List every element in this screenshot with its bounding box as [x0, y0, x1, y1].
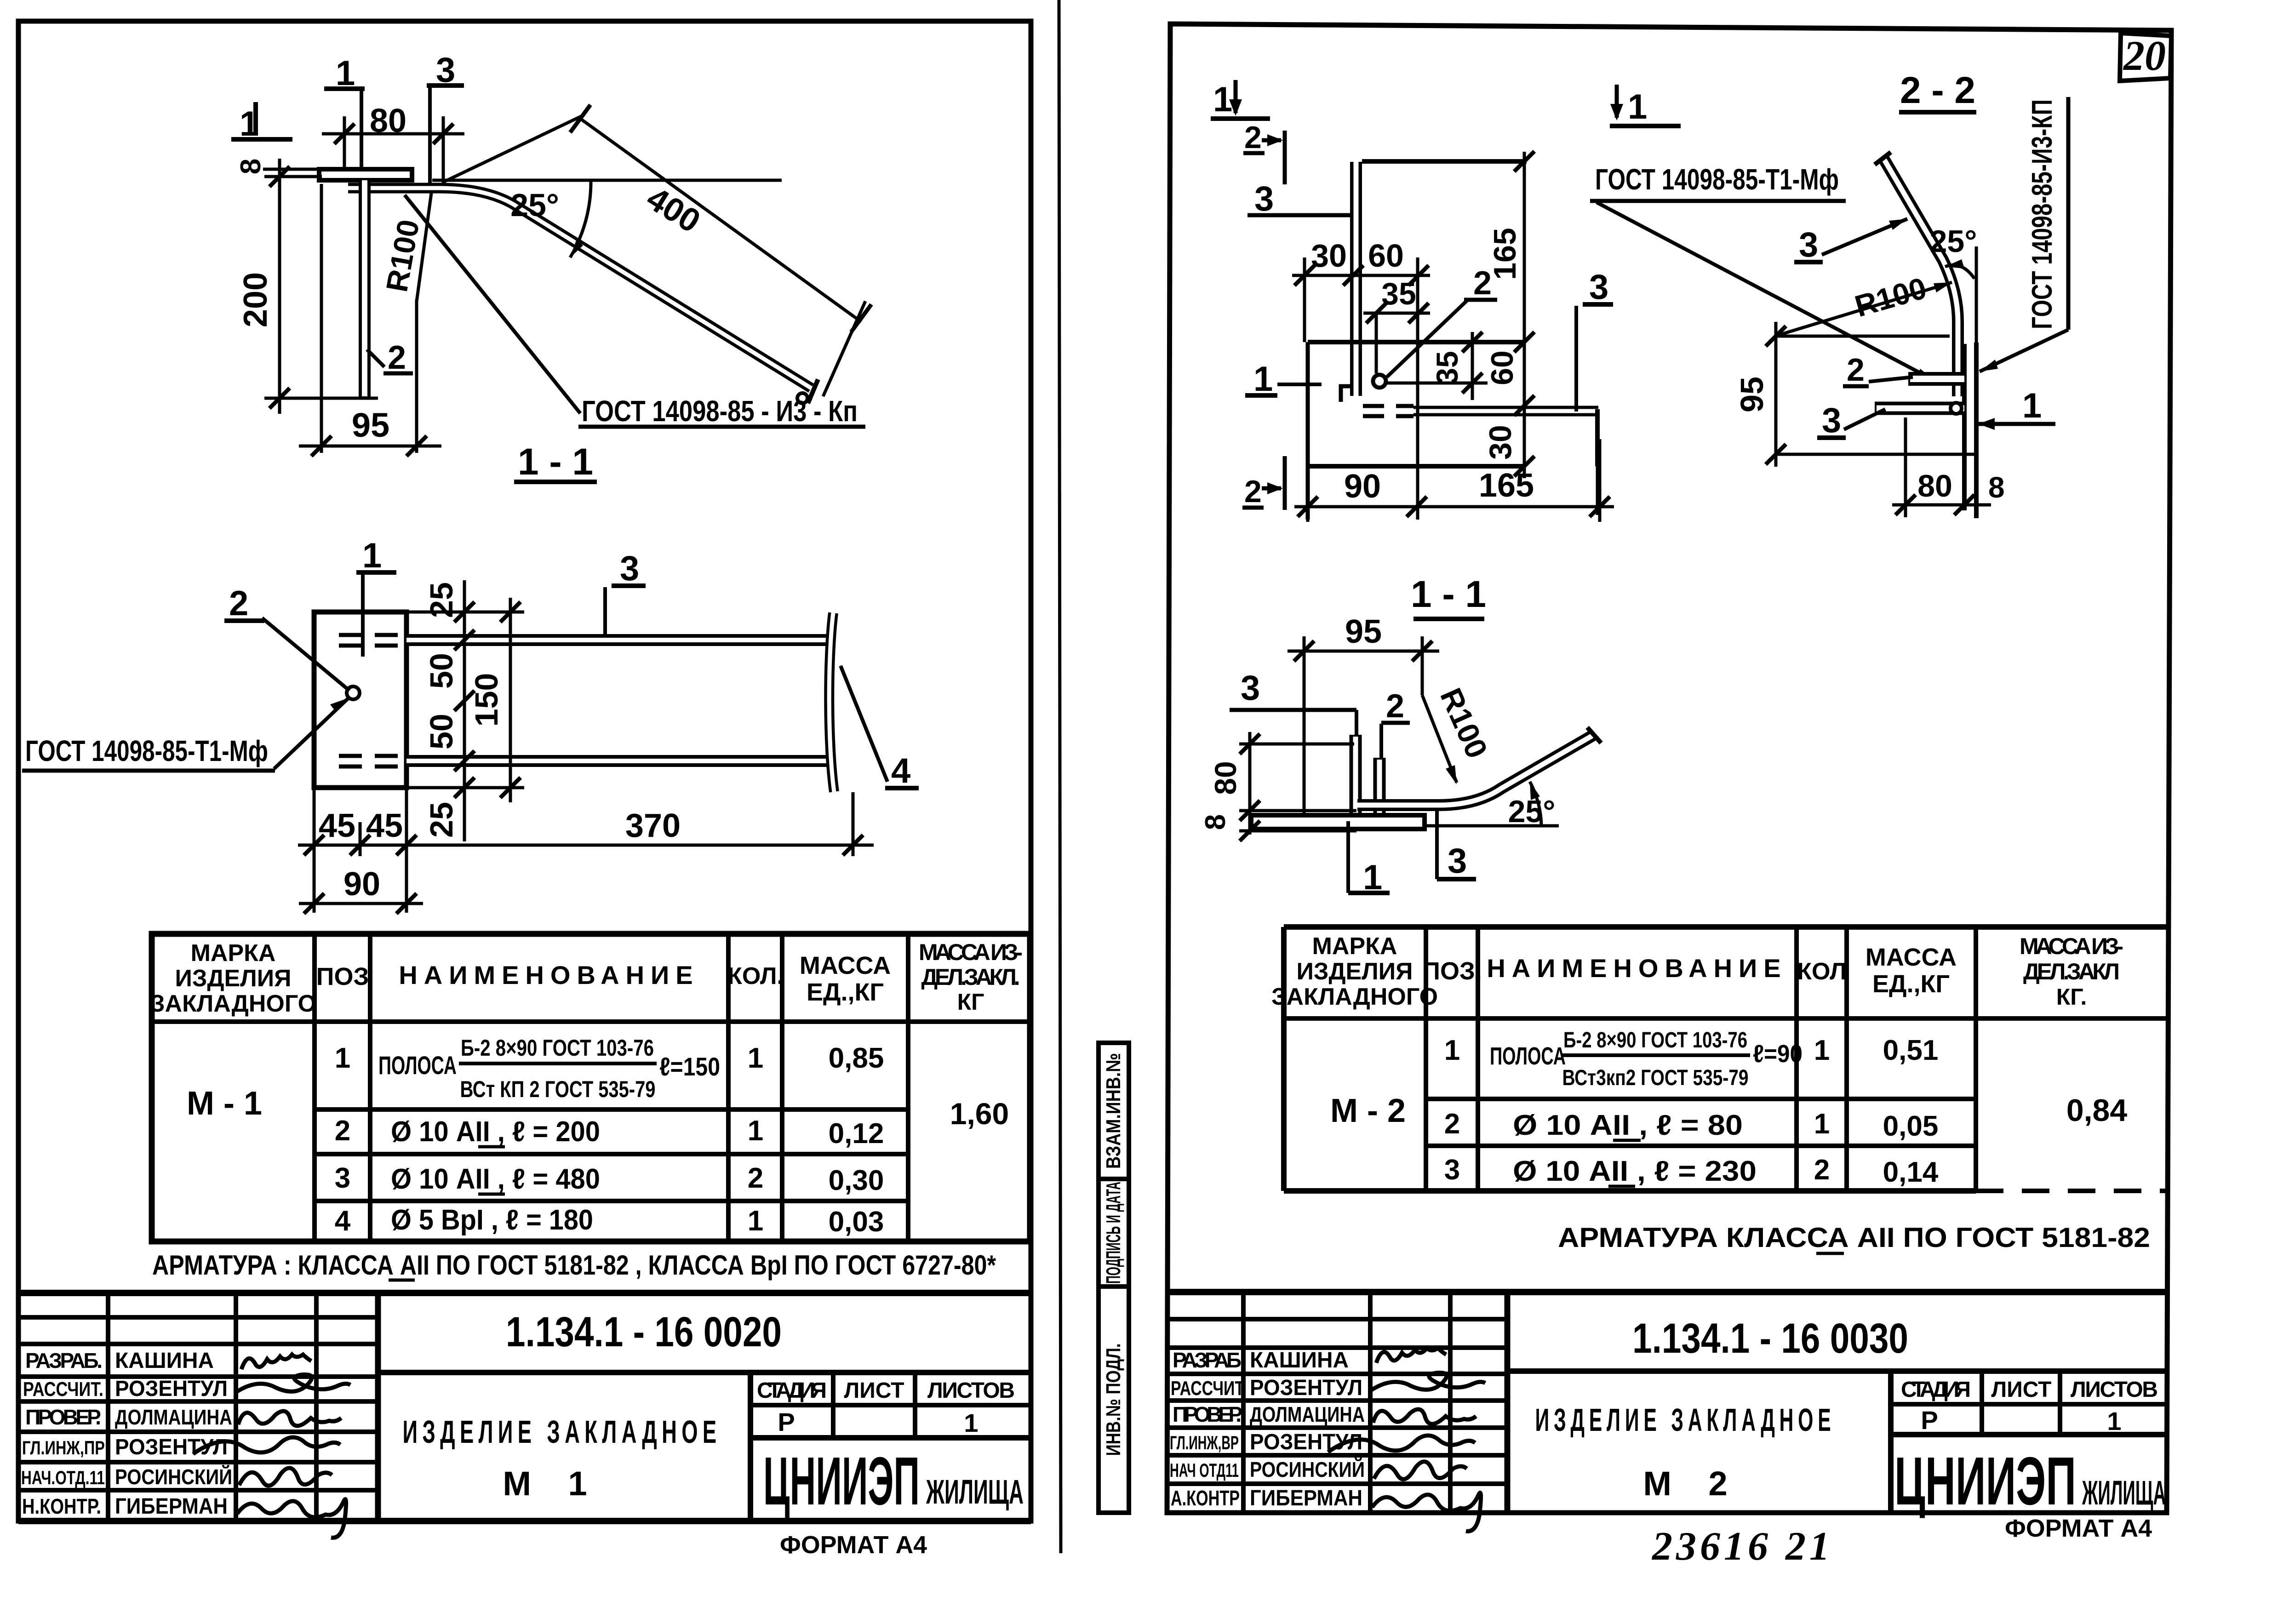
svg-text:ГЛ.ИНЖ,ВР: ГЛ.ИНЖ,ВР: [1170, 1432, 1239, 1453]
svg-text:НАЧ ОТД11: НАЧ ОТД11: [1170, 1459, 1239, 1481]
right sidebar boxes: [1099, 1043, 1129, 1513]
svg-text:ЛИСТ: ЛИСТ: [844, 1378, 904, 1403]
weld label GOST 14098-85-I3-KP rotated: [1980, 97, 2068, 372]
left format A4 label: [780, 1531, 927, 1559]
plate bottom edge line: [1308, 464, 1524, 469]
svg-text:ЖИЛИЩА: ЖИЛИЩА: [2082, 1474, 2166, 1512]
svg-text:ПОЛОСА: ПОЛОСА: [378, 1051, 457, 1080]
svg-text:Б-2 8×90 ГОСТ 103-76: Б-2 8×90 ГОСТ 103-76: [461, 1035, 654, 1061]
anchor rod item2 vertical: [359, 180, 371, 398]
leader label 3 bottom (right 1-1): [1437, 810, 1476, 881]
leader label 3 upper (2-2): [1794, 219, 1907, 264]
dimension 95 (bottom): [299, 184, 441, 456]
left signatures: [193, 1355, 350, 1538]
leader label 1 (2-2): [1978, 386, 2055, 430]
right title name entries: [1250, 1348, 1365, 1510]
right page notes handwritten: [1651, 1524, 1833, 1569]
svg-text:3: 3: [1799, 225, 1818, 264]
svg-text:2: 2: [1847, 352, 1865, 388]
left sheet frame: [18, 21, 1031, 1521]
svg-text:50: 50: [423, 714, 459, 749]
svg-text:25: 25: [423, 802, 459, 838]
weld circle (plan): [1373, 375, 1386, 388]
rod item2 vertical A (right 1-1): [1350, 735, 1362, 815]
svg-text:ГИБЕРМАН: ГИБЕРМАН: [115, 1494, 228, 1519]
svg-text:80: 80: [1208, 761, 1242, 795]
svg-text:35: 35: [1430, 351, 1464, 384]
svg-text:РОЗЕНТУЛ: РОЗЕНТУЛ: [115, 1435, 228, 1459]
right title role labels: [1170, 1348, 1244, 1510]
leader label 1 (plate): [324, 54, 365, 175]
right table header texts: [1271, 933, 2123, 1010]
svg-text:1: 1: [362, 536, 382, 575]
svg-text:ЕД.,КГ: ЕД.,КГ: [1872, 970, 1950, 998]
svg-text:КОЛ: КОЛ: [1797, 958, 1846, 985]
svg-text:ПРОВЕР.: ПРОВЕР.: [1173, 1402, 1242, 1426]
dimension 165 60 30 vertical: [1483, 152, 1534, 478]
svg-text:1.134.1 - 16 0020: 1.134.1 - 16 0020: [506, 1309, 782, 1355]
svg-text:ЕД.,КГ: ЕД.,КГ: [807, 978, 884, 1006]
bent rod item3 (2-2): [1875, 152, 1958, 396]
svg-text:Ø 10 АII , ℓ = 480: Ø 10 АII , ℓ = 480: [391, 1163, 600, 1195]
leader label 3 (plan): [605, 549, 646, 636]
svg-text:165: 165: [1488, 228, 1522, 280]
svg-text:ИЗДЕЛИЯ: ИЗДЕЛИЯ: [175, 965, 292, 992]
svg-text:ФОРМАТ А4: ФОРМАТ А4: [780, 1531, 927, 1559]
svg-text:3: 3: [1448, 841, 1467, 881]
svg-text:ВЗАМ.ИНВ.№: ВЗАМ.ИНВ.№: [1102, 1053, 1125, 1169]
right table total mass: [2066, 1093, 2128, 1128]
svg-text:РАЗРАБ.: РАЗРАБ.: [25, 1349, 103, 1372]
dimension 150: [406, 598, 524, 802]
dimension 8 (right 1-1): [1200, 814, 1356, 841]
svg-text:370: 370: [625, 807, 681, 844]
svg-text:8: 8: [1988, 471, 2005, 504]
svg-text:35: 35: [1381, 276, 1416, 311]
svg-text:ИНВ.№ ПОДЛ.: ИНВ.№ ПОДЛ.: [1102, 1344, 1125, 1456]
dimension 30 60: [1292, 238, 1430, 342]
svg-text:0,51: 0,51: [1883, 1035, 1939, 1066]
plate left edge line: [1306, 342, 1310, 520]
svg-text:АРМАТУРА : КЛАССА АII ПО ГОС: АРМАТУРА : КЛАССА АII ПО ГОСТ 5181-82 , …: [152, 1250, 996, 1281]
leader label 2 (weld): [1387, 265, 1497, 377]
section mark 1 down (center): [1610, 85, 1681, 126]
svg-text:2: 2: [1244, 120, 1262, 155]
svg-text:3: 3: [1589, 268, 1608, 307]
bar item1 (2-2): [1875, 403, 1964, 414]
svg-text:РАССЧИТ: РАССЧИТ: [1171, 1377, 1244, 1400]
svg-text:ЛИСТОВ: ЛИСТОВ: [927, 1378, 1015, 1403]
svg-text:3: 3: [1254, 179, 1274, 218]
svg-text:1: 1: [748, 1205, 763, 1237]
svg-text:НАИМЕНОВАНИЕ: НАИМЕНОВАНИЕ: [1487, 954, 1787, 983]
right table row 3: [1444, 1154, 1939, 1188]
right stage grid: [1891, 1371, 2167, 1435]
leader label 2 (right 1-1): [1381, 688, 1410, 758]
left document name: [403, 1372, 751, 1521]
plate item (2-2 side): [1964, 246, 1976, 518]
svg-text:Р: Р: [1921, 1406, 1938, 1435]
svg-text:0,30: 0,30: [829, 1165, 884, 1196]
svg-text:4: 4: [891, 751, 910, 790]
svg-text:КАШИНА: КАШИНА: [1250, 1348, 1349, 1372]
svg-text:КОЛ.: КОЛ.: [727, 963, 784, 989]
svg-text:2 - 2: 2 - 2: [1900, 69, 1975, 111]
left table total mass: [950, 1097, 1009, 1131]
svg-text:МАРКА: МАРКА: [191, 940, 276, 966]
svg-text:1,60: 1,60: [950, 1097, 1009, 1131]
svg-text:ГОСТ 14098-85-Т1-Мф: ГОСТ 14098-85-Т1-Мф: [25, 734, 268, 767]
svg-text:1: 1: [964, 1408, 978, 1437]
page fold line: [1059, 0, 1061, 1553]
svg-text:1: 1: [1814, 1108, 1830, 1140]
leader label 2 (2-2): [1843, 352, 1913, 388]
right format A4 label: [2005, 1515, 2152, 1542]
horizontal bar item1 (plan): [1363, 406, 1598, 515]
svg-text:ПОЗ.: ПОЗ.: [1422, 957, 1482, 985]
svg-text:М 2: М 2: [1643, 1464, 1741, 1503]
dimension 400 along rod: [443, 105, 871, 396]
svg-text:ДЕЛ.ЗАКЛ.: ДЕЛ.ЗАКЛ.: [921, 964, 1020, 990]
left title name entries: [115, 1349, 232, 1519]
right reinforcement note: [1558, 1222, 2150, 1253]
svg-text:МАССА ИЗ-: МАССА ИЗ-: [2020, 933, 2123, 959]
section title 1-1 (right): [1411, 573, 1486, 619]
svg-text:2: 2: [1444, 1108, 1460, 1140]
svg-text:ГОСТ 14098-85-Т1-Мф: ГОСТ 14098-85-Т1-Мф: [1595, 163, 1839, 196]
svg-text:0,84: 0,84: [2066, 1093, 2128, 1128]
radius R100 (2-2): [1780, 271, 1952, 335]
svg-text:ГОСТ 14098-85 - И3 - Кп: ГОСТ 14098-85 - И3 - Кп: [582, 395, 858, 428]
svg-text:М 1: М 1: [503, 1464, 601, 1503]
plate P1 plan view: [314, 612, 406, 788]
svg-text:0,14: 0,14: [1883, 1156, 1939, 1188]
svg-text:ПРОВЕР.: ПРОВЕР.: [25, 1405, 101, 1429]
svg-text:0,85: 0,85: [829, 1042, 884, 1074]
rod item3 lower (plan): [339, 756, 835, 766]
right table row 2: [1444, 1108, 1939, 1142]
svg-text:150: 150: [469, 673, 504, 727]
svg-text:ЖИЛИЩА: ЖИЛИЩА: [926, 1473, 1024, 1511]
svg-text:8: 8: [1200, 814, 1231, 830]
svg-text:25°: 25°: [1930, 224, 1977, 259]
left table row 3: [335, 1162, 884, 1196]
svg-text:3: 3: [620, 549, 639, 588]
svg-text:3: 3: [335, 1162, 350, 1194]
svg-text:8: 8: [235, 159, 267, 174]
svg-text:90: 90: [343, 866, 380, 903]
weld label GOST 14098-85-T1-Mf: [22, 698, 349, 771]
weld label GOST 14098-85-T1-Mf (2-2): [1590, 163, 1935, 381]
svg-text:1.134.1 - 16 0030: 1.134.1 - 16 0030: [1632, 1315, 1908, 1362]
dimension 8 plate thickness: [235, 159, 322, 174]
svg-text:РОЗЕНТУЛ: РОЗЕНТУЛ: [1250, 1376, 1362, 1400]
svg-text:165: 165: [1479, 467, 1534, 504]
right sheet frame: [1167, 24, 2171, 1513]
sheet number box 20: [2120, 32, 2171, 81]
svg-text:3: 3: [1822, 401, 1841, 440]
svg-text:50: 50: [423, 653, 459, 689]
svg-text:Ø 5 ВрI , ℓ = 180: Ø 5 ВрI , ℓ = 180: [391, 1204, 593, 1236]
long extension line: [1416, 257, 1419, 520]
svg-text:ℓ=150: ℓ=150: [659, 1052, 720, 1081]
right table mark M-2: [1330, 1092, 1406, 1129]
svg-text:2: 2: [335, 1115, 350, 1147]
dimension 80 (top): [322, 103, 464, 184]
angle 25 deg (2-2): [1930, 224, 1977, 279]
weld point circle: [347, 686, 360, 699]
svg-text:2: 2: [388, 339, 406, 376]
svg-text:ГОСТ 14098-85-И3-КП: ГОСТ 14098-85-И3-КП: [2026, 99, 2058, 329]
dimension 95 (2-2): [1734, 322, 1976, 467]
svg-text:М - 2: М - 2: [1330, 1092, 1406, 1129]
svg-text:ЛИСТОВ: ЛИСТОВ: [2071, 1378, 2158, 1402]
svg-text:ЗАКЛАДНОГО: ЗАКЛАДНОГО: [150, 990, 316, 1017]
svg-text:ПОЛОСА: ПОЛОСА: [1490, 1042, 1566, 1070]
svg-text:ИЗДЕЛИЕ ЗАКЛАДНОЕ: ИЗДЕЛИЕ ЗАКЛАДНОЕ: [403, 1414, 721, 1450]
svg-text:Б-2 8×90 ГОСТ 103-76: Б-2 8×90 ГОСТ 103-76: [1563, 1028, 1747, 1052]
left document number: [378, 1309, 1031, 1372]
leader label 1 (plate): [1245, 360, 1322, 399]
svg-text:95: 95: [1345, 613, 1382, 650]
svg-text:ℓ=90: ℓ=90: [1753, 1040, 1803, 1068]
leader label 4 (cross rod): [841, 666, 919, 790]
svg-text:М - 1: М - 1: [187, 1085, 262, 1122]
svg-text:200: 200: [237, 272, 274, 327]
svg-text:Н.КОНТР.: Н.КОНТР.: [22, 1494, 101, 1518]
leader label 2 (rod): [367, 339, 413, 376]
leader label 3 (vertical strip): [1248, 179, 1359, 234]
dimension 80 (right 1-1): [1208, 732, 1356, 835]
svg-text:ВСт КП 2 ГОСТ 535-79: ВСт КП 2 ГОСТ 535-79: [460, 1076, 656, 1102]
right logo CNIIEP: [1894, 1443, 2166, 1519]
angle 25 deg (right 1-1): [1425, 782, 1559, 829]
left title block grid: [18, 1293, 1031, 1521]
svg-text:1: 1: [2107, 1407, 2121, 1435]
left stage grid: [750, 1372, 1031, 1438]
svg-text:30: 30: [1311, 238, 1347, 274]
svg-text:МАССА ИЗ-: МАССА ИЗ-: [919, 939, 1023, 965]
svg-text:ЗАКЛАДНОГО: ЗАКЛАДНОГО: [1271, 984, 1438, 1010]
anchor rod item2 (2-2): [1908, 372, 1964, 386]
weld label GOST 14098-85-I3-Kp: [405, 195, 865, 428]
dimension 35 vertical: [1386, 332, 1488, 400]
svg-text:РОЗЕНТУЛ: РОЗЕНТУЛ: [115, 1377, 228, 1401]
left table header texts: [150, 939, 1023, 1017]
svg-text:ИЗДЕЛИЕ ЗАКЛАДНОЕ: ИЗДЕЛИЕ ЗАКЛАДНОЕ: [1535, 1402, 1836, 1438]
right spec table grid: [1284, 927, 2168, 1191]
bent rod item3 (right 1-1): [1357, 727, 1601, 805]
svg-text:ГЛ.ИНЖ,ПР: ГЛ.ИНЖ,ПР: [22, 1437, 105, 1458]
svg-text:ДОЛМАЦИНА: ДОЛМАЦИНА: [1250, 1402, 1365, 1426]
svg-text:РОСИНСКИЙ: РОСИНСКИЙ: [1250, 1458, 1365, 1481]
svg-text:25°: 25°: [510, 187, 559, 223]
svg-text:НАИМЕНОВАНИЕ: НАИМЕНОВАНИЕ: [399, 961, 699, 989]
left table mark M-1: [187, 1085, 262, 1122]
right document name: [1535, 1371, 1891, 1513]
svg-text:0,03: 0,03: [829, 1206, 884, 1238]
radius R100 (right 1-1): [1422, 683, 1494, 784]
right signatures: [1328, 1348, 1485, 1531]
plate middle edge line: [1308, 340, 1524, 344]
radius R100: [379, 193, 431, 302]
svg-text:Р: Р: [778, 1407, 795, 1436]
svg-text:1: 1: [748, 1115, 763, 1147]
svg-text:90: 90: [1344, 468, 1381, 505]
rod item3 upper (plan): [339, 635, 835, 646]
svg-text:2: 2: [229, 584, 248, 623]
svg-text:3: 3: [1241, 669, 1260, 708]
right table row 1: [1444, 1028, 1939, 1090]
plate P1 cross-section: [319, 169, 412, 180]
svg-text:1: 1: [2022, 386, 2042, 425]
svg-text:ДОЛМАЦИНА: ДОЛМАЦИНА: [115, 1405, 232, 1429]
svg-text:ДЕЛ.ЗАКЛ: ДЕЛ.ЗАКЛ: [2023, 959, 2120, 984]
svg-text:СТАДИЯ: СТАДИЯ: [1901, 1378, 1971, 1402]
dimension 35 upper: [1363, 276, 1430, 373]
dimension chain 25/50/50/25: [423, 580, 475, 841]
svg-text:РОСИНСКИЙ: РОСИНСКИЙ: [115, 1465, 232, 1489]
section title 1-1: [514, 441, 597, 483]
section mark 2 right (top): [1243, 120, 1285, 184]
svg-text:КГ.: КГ.: [2056, 984, 2087, 1010]
left table row 2: [335, 1115, 884, 1149]
svg-text:ВСт3кп2 ГОСТ 535-79: ВСт3кп2 ГОСТ 535-79: [1562, 1066, 1749, 1090]
svg-text:ФОРМАТ А4: ФОРМАТ А4: [2005, 1515, 2152, 1542]
svg-text:45: 45: [319, 807, 355, 844]
dimension 200 (left vertical): [237, 159, 378, 414]
section mark 1 down (right sheet plan): [1211, 80, 1270, 119]
left spec table grid: [152, 934, 1030, 1241]
svg-text:20: 20: [2123, 32, 2166, 79]
svg-text:30: 30: [1483, 425, 1518, 460]
svg-text:КГ: КГ: [957, 989, 984, 1015]
svg-text:1: 1: [1628, 87, 1647, 126]
svg-text:1: 1: [335, 1042, 350, 1074]
svg-text:ПОЗ: ПОЗ: [316, 963, 369, 990]
svg-text:2: 2: [1386, 688, 1404, 725]
svg-text:23616 21: 23616 21: [1651, 1524, 1833, 1569]
left reinforcement note: [152, 1250, 996, 1281]
vertical strip item3 (plan): [1341, 162, 1356, 402]
dimension 90 165 bottom: [1294, 439, 1614, 522]
svg-text:2: 2: [748, 1162, 763, 1194]
svg-text:РАССЧИТ.: РАССЧИТ.: [23, 1378, 103, 1401]
svg-text:А.КОНТР: А.КОНТР: [1171, 1486, 1240, 1510]
leader label 1 (plan): [356, 536, 396, 657]
leader label 3 upper (right 1-1): [1230, 669, 1356, 736]
svg-text:4: 4: [335, 1205, 351, 1237]
angle 25 deg: [432, 180, 782, 257]
svg-text:Ø 10 АII , ℓ = 230: Ø 10 АII , ℓ = 230: [1513, 1155, 1757, 1187]
left table row 1: [335, 1035, 884, 1102]
svg-text:ЛИСТ: ЛИСТ: [1991, 1378, 2052, 1402]
plate top edge line: [1362, 151, 1534, 172]
left title role labels: [21, 1349, 105, 1518]
dimension 95 (right 1-1): [1288, 613, 1439, 828]
rod item2 vertical B (right 1-1): [1373, 758, 1386, 815]
cross rod item4: [829, 613, 834, 792]
bent rod item3 side view: [348, 188, 818, 403]
svg-text:3: 3: [1444, 1154, 1460, 1186]
svg-text:МАССА: МАССА: [800, 952, 891, 979]
svg-text:1 - 1: 1 - 1: [518, 441, 593, 483]
section title 2-2: [1899, 69, 1976, 112]
right title block grid: [1167, 1292, 2167, 1513]
left table row 4: [335, 1204, 884, 1238]
svg-text:РАЗРАБ: РАЗРАБ: [1173, 1348, 1242, 1372]
svg-text:0,12: 0,12: [829, 1118, 884, 1149]
svg-text:2: 2: [1244, 474, 1262, 509]
svg-text:1: 1: [1444, 1035, 1460, 1066]
leader label 3 lower (2-2): [1817, 401, 1885, 440]
svg-text:95: 95: [352, 406, 389, 444]
svg-text:45: 45: [366, 807, 403, 844]
dimension 90: [299, 866, 423, 914]
svg-text:1: 1: [1814, 1035, 1830, 1066]
svg-text:МАРКА: МАРКА: [1312, 933, 1397, 960]
svg-text:1: 1: [1253, 360, 1273, 399]
svg-text:Ø 10 АII , ℓ = 80: Ø 10 АII , ℓ = 80: [1513, 1109, 1743, 1141]
svg-text:ЦНИИЭП: ЦНИИЭП: [763, 1443, 920, 1519]
svg-text:60: 60: [1368, 238, 1404, 274]
svg-text:0,05: 0,05: [1883, 1110, 1939, 1142]
svg-text:ГИБЕРМАН: ГИБЕРМАН: [1250, 1486, 1362, 1510]
leader label 3 (bent rods): [427, 51, 464, 184]
svg-text:25°: 25°: [1508, 794, 1556, 829]
section mark 1 (left sheet main view): [231, 102, 292, 143]
svg-text:60: 60: [1485, 350, 1520, 385]
svg-text:ПОДПИСЬ И ДАТА: ПОДПИСЬ И ДАТА: [1102, 1182, 1125, 1284]
svg-text:МАССА: МАССА: [1866, 944, 1957, 971]
right document number: [1507, 1315, 2167, 1371]
section mark 2 right (bottom): [1242, 456, 1285, 510]
svg-text:2: 2: [1814, 1154, 1830, 1186]
dimension 80 8 (2-2): [1892, 417, 2005, 517]
plate item1 (right 1-1): [1251, 815, 1425, 829]
svg-text:АРМАТУРА КЛАССА АII ПО ГОСТ 51: АРМАТУРА КЛАССА АII ПО ГОСТ 5181-82: [1558, 1222, 2150, 1253]
svg-text:КАШИНА: КАШИНА: [115, 1349, 214, 1373]
svg-text:80: 80: [1917, 469, 1952, 503]
svg-text:ИЗДЕЛИЯ: ИЗДЕЛИЯ: [1297, 958, 1413, 985]
leader label 1 bottom (right 1-1): [1348, 821, 1390, 897]
svg-text:СТАДИЯ: СТАДИЯ: [757, 1378, 827, 1403]
svg-text:95: 95: [1734, 377, 1770, 412]
svg-text:Ø 10 АII , ℓ = 200: Ø 10 АII , ℓ = 200: [391, 1116, 600, 1148]
left logo CNIIEP: [763, 1443, 1024, 1519]
svg-text:ЦНИИЭП: ЦНИИЭП: [1894, 1443, 2076, 1519]
leader label 3 (bar): [1576, 268, 1613, 412]
dimension 45 45 370: [298, 788, 874, 913]
svg-text:1: 1: [748, 1042, 763, 1074]
svg-text:НАЧ.ОТД.11: НАЧ.ОТД.11: [21, 1467, 105, 1488]
svg-text:1 - 1: 1 - 1: [1411, 573, 1486, 615]
leader label 2 (plan weld): [224, 584, 349, 691]
